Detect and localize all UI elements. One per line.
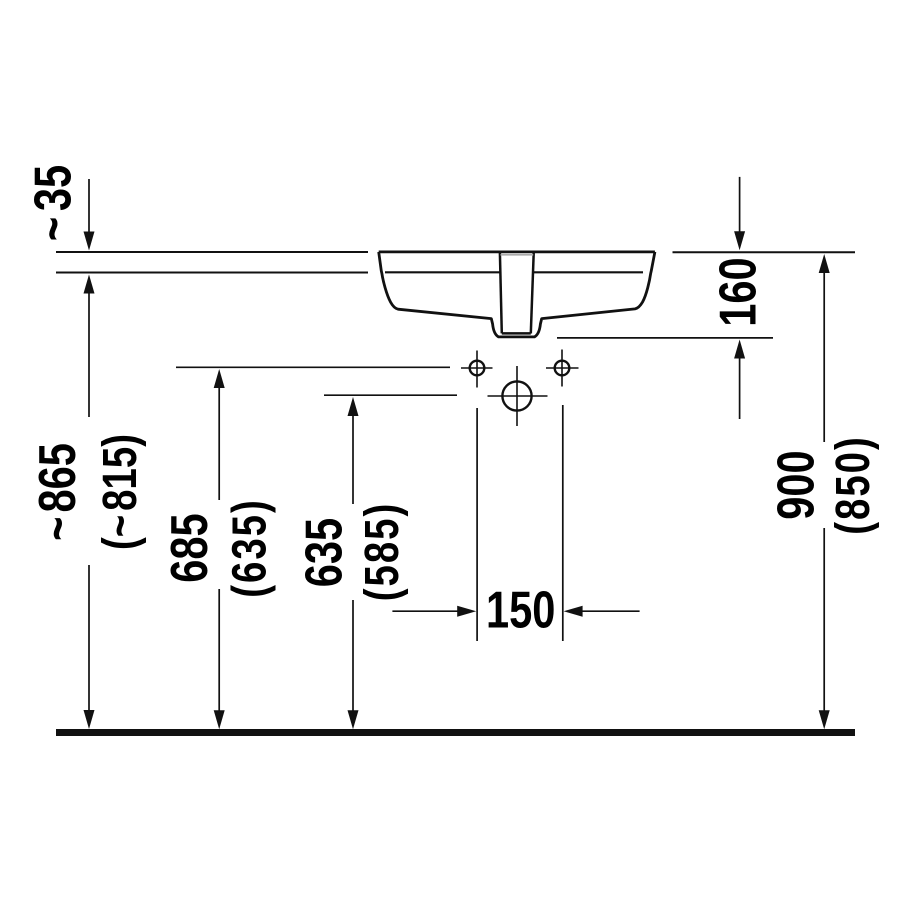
dimension line ~35 (above counter, arrow down) — [88, 179, 90, 233]
faint rim edge across channel top — [501, 254, 534, 256]
svg-text:635: 635 — [294, 518, 353, 587]
dimension line 150 right segment (arrow left) — [581, 610, 640, 612]
arrowhead down at floor (dim ~865) — [84, 710, 95, 729]
arrowhead up at counter underside (dim ~865) — [84, 275, 95, 294]
arrowhead up at counter level (dim 900) — [819, 254, 830, 273]
wire: extension line of counter level (right side, for dims ~35 / 160 / 900) — [673, 251, 856, 253]
white mask behind 635/(585) label — [303, 504, 404, 600]
central mixer/drain hole — [502, 381, 531, 410]
dimension line ~865/(~815): counter underside to floor — [88, 292, 90, 711]
svg-text:(850): (850) — [827, 435, 880, 535]
arrowhead down at floor (dim 685) — [214, 710, 225, 729]
overflow/drain channel bottom — [502, 332, 531, 335]
wire: extension line at faucet-hole level (685 reference) — [176, 366, 450, 368]
label 635 (mixer hole height) — [294, 518, 353, 587]
wire: countertop upper line (left of basin) — [56, 251, 368, 253]
wire: right extension line of 150 dimension — [562, 405, 564, 641]
arrowhead down at counter top (dim ~35) — [84, 232, 95, 251]
dimension line 635/(585): mixer level to floor — [352, 415, 354, 711]
arrowhead up at hole level (dim 685) — [214, 369, 225, 388]
label 685 (fixing hole height) — [160, 513, 219, 582]
left faucet fixing hole — [470, 361, 485, 376]
arrowhead up at drain bottom (dim 160) — [734, 340, 745, 359]
svg-text:~35: ~35 — [23, 165, 82, 241]
dimension line 900/(850): counter top to floor — [823, 272, 825, 711]
wire: countertop lower line (left of basin) — [56, 272, 368, 274]
svg-text:(635): (635) — [224, 498, 277, 598]
crosshair of central hole — [488, 366, 548, 426]
svg-text:150: 150 — [486, 580, 555, 639]
washbasin inner rim line right — [533, 271, 643, 273]
overflow/drain channel left wall — [500, 253, 502, 333]
svg-text:160: 160 — [708, 257, 767, 326]
wire: left extension line of 150 dimension — [476, 408, 478, 641]
label 160 (basin depth below counter) — [708, 257, 767, 326]
label (~815) alternate rim height — [94, 434, 147, 550]
arrowhead left (dim 150 right) — [564, 606, 583, 617]
white mask behind 900/(850) label — [774, 442, 875, 528]
arrowhead up at mixer level (dim 635) — [348, 397, 359, 416]
washbasin inner rim line left — [385, 271, 500, 273]
arrowhead down at floor (dim 900) — [819, 710, 830, 729]
dimension line 160 upper segment (arrow down to counter) — [739, 177, 741, 233]
svg-text:900: 900 — [766, 450, 825, 519]
white mask behind 685/(635) label — [169, 500, 270, 589]
label 150 (hole spacing) — [486, 580, 555, 639]
label (850) alternate counter height — [827, 435, 880, 535]
wire: extension line at basin drain bottom (160 reference) — [557, 337, 773, 339]
crosshair of left fixing hole — [461, 351, 493, 388]
dimension line 685/(635): hole level to floor — [218, 387, 220, 711]
arrowhead down at counter level (dim 160) — [734, 231, 745, 250]
label 900 (counter height) — [766, 450, 825, 519]
svg-text:685: 685 — [160, 513, 219, 582]
arrowhead down at floor (dim 635) — [348, 710, 359, 729]
washbasin outer body outline (cross-section) — [379, 252, 655, 337]
label (635) alternate fixing hole height — [224, 498, 277, 598]
washbasin top rim line — [379, 250, 655, 253]
right faucet fixing hole — [555, 361, 570, 376]
svg-text:(585): (585) — [356, 502, 409, 602]
dimension line 160 lower segment (arrow up to drain bottom) — [739, 357, 741, 419]
white mask behind ~865/(~815) label — [38, 417, 139, 565]
arrowhead right (dim 150 left) — [457, 606, 476, 617]
svg-text:~865: ~865 — [28, 443, 87, 541]
overflow/drain channel right wall — [531, 253, 534, 333]
dimension line 150 left segment (arrow right) — [392, 610, 459, 612]
label ~35 (counter thickness) — [23, 165, 82, 241]
wire: extension line at mixer-hole level (635 reference) — [324, 394, 457, 396]
label (585) alternate mixer hole height — [356, 502, 409, 602]
crosshair of right fixing hole — [546, 350, 579, 387]
svg-text:(~815): (~815) — [94, 434, 147, 550]
floor line (thick) — [56, 729, 855, 736]
label ~865 (rim height approx) — [28, 443, 87, 541]
